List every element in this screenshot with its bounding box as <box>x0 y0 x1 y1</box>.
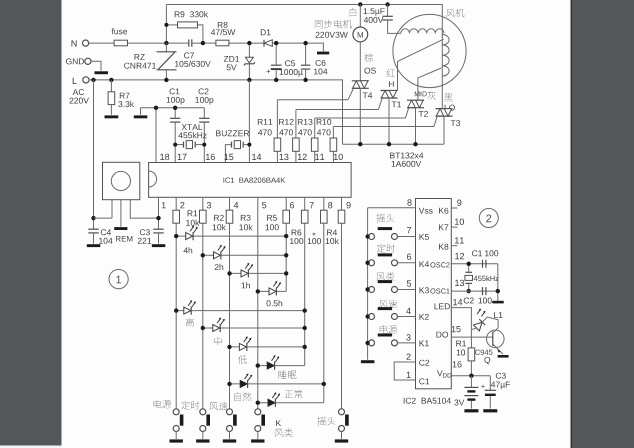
LED row 4h <box>174 226 288 254</box>
wire pin1 drop <box>158 197 160 229</box>
wire Vss pin8 <box>368 207 416 209</box>
resistor R3 <box>226 197 252 230</box>
fan tap H <box>387 39 444 90</box>
LED L1 <box>471 309 502 333</box>
node bus btn3 <box>365 287 369 291</box>
varistor RZ <box>124 43 176 80</box>
wire pin4 vertical <box>229 223 231 409</box>
fan motor circle <box>393 9 466 88</box>
resistor R8 <box>211 22 235 46</box>
LED row sleep <box>256 355 305 379</box>
node pin14 rail <box>247 78 251 82</box>
wire VDD pin16 <box>451 375 490 377</box>
node C5 bottom <box>274 78 278 82</box>
LED row 2h <box>201 245 289 270</box>
wire pin7 vertical <box>304 223 306 365</box>
capacitor C6 <box>301 43 328 80</box>
resistor R1 10 <box>456 341 474 376</box>
IR receiver box <box>103 162 159 226</box>
zener ZD1 <box>224 43 255 80</box>
terminal GND <box>66 58 101 71</box>
node C1 top <box>173 106 177 110</box>
node bus btn2 <box>365 261 369 265</box>
bus terminal bar <box>492 301 503 304</box>
motor M (synchronous) <box>315 5 376 81</box>
resistor R6 <box>290 197 308 244</box>
terminal L <box>70 77 90 104</box>
triac T2 <box>406 100 429 144</box>
resistor R1 <box>173 197 200 226</box>
capacitor C2 <box>195 88 213 162</box>
ground R7 <box>105 115 119 118</box>
button timer <box>369 244 416 266</box>
node N-C7 <box>164 41 168 45</box>
resistor R11 <box>258 100 348 163</box>
LED row 0.5h <box>256 281 287 306</box>
node R9 tap <box>164 23 168 27</box>
switch K windtype <box>251 409 293 443</box>
wire L to C4 <box>93 80 95 229</box>
marker circle 1 <box>109 270 128 289</box>
node T1 rail <box>387 142 391 146</box>
capacitor C2 100 <box>464 287 492 303</box>
capacitor C7 <box>175 39 211 67</box>
node RZ bottom <box>164 78 168 82</box>
wire pin6 vertical <box>285 223 287 291</box>
capacitor C1 <box>167 88 185 162</box>
fan aux winding <box>442 30 455 111</box>
fuse F1 <box>112 28 128 46</box>
switch power <box>154 400 184 443</box>
node buzzer pin14 <box>247 143 251 147</box>
wire pin14 vertical <box>248 80 250 163</box>
diode D1 <box>261 29 272 46</box>
node R7 top <box>109 78 113 82</box>
marker circle 2 <box>479 209 498 228</box>
emitter bar <box>498 355 509 358</box>
resistor Rx 100 <box>308 197 327 244</box>
button speed <box>369 300 416 320</box>
resistor R9 <box>166 11 208 43</box>
node pin18 <box>154 106 158 110</box>
ground key bus <box>361 360 375 363</box>
ground C3 <box>483 409 497 412</box>
resonator 455kHz <box>465 264 499 291</box>
capacitor 1.5uF <box>364 5 401 34</box>
node L drop <box>91 78 95 82</box>
wire N rail <box>89 43 324 51</box>
resistor R10 <box>317 119 434 163</box>
ground C4 <box>87 244 101 247</box>
wire LED pin14 <box>451 308 471 348</box>
battery 3V <box>454 376 478 409</box>
triac T1 <box>379 91 402 145</box>
node T4 rail <box>358 142 362 146</box>
node C6 bottom <box>303 78 307 82</box>
wire osc top <box>141 107 205 109</box>
node T2 rail <box>413 142 417 146</box>
resistor R2 <box>200 197 226 230</box>
node C6 top <box>303 41 307 45</box>
node osc bus <box>496 289 500 293</box>
ground battery <box>464 409 478 412</box>
IC2 left pin numbers <box>406 199 411 378</box>
wire pin9 vertical <box>341 223 343 409</box>
wire K6 stub <box>451 207 457 209</box>
terminal N <box>72 40 89 47</box>
switch oscillate <box>317 409 348 443</box>
ground GND terminal <box>95 71 109 74</box>
triac T3 <box>434 109 460 145</box>
capacitor C3 47uF <box>481 373 510 409</box>
wire OSC2 <box>451 263 498 265</box>
node ZD1 top <box>247 41 251 45</box>
ground osc <box>134 108 148 119</box>
wire triac common rail <box>343 143 445 145</box>
resistor R5 <box>266 197 290 230</box>
crystal XTAL 455kHz <box>175 124 207 148</box>
wire pin5 vertical <box>257 197 259 409</box>
IC1 top pin numbers <box>160 154 343 160</box>
LED row natural <box>227 373 326 401</box>
capacitor C5 <box>267 43 303 80</box>
node C5 top <box>274 41 278 45</box>
node resonator bottom <box>467 289 471 293</box>
node bus btn4 <box>365 314 369 318</box>
wire pin18 <box>155 108 157 163</box>
wire top feed <box>166 5 442 31</box>
node R9-right <box>201 41 205 45</box>
node cap 1.5uF top <box>385 2 389 6</box>
antenna bar node <box>317 52 329 55</box>
LED row 1h <box>227 263 288 288</box>
node resonator top <box>467 262 471 266</box>
wire OSC1 <box>451 290 498 292</box>
ground C3 <box>152 244 166 247</box>
IC1 bottom pin numbers <box>162 202 351 208</box>
wire K7 stub <box>451 226 457 228</box>
LED row low <box>227 336 307 363</box>
switch speed <box>209 402 236 443</box>
capacitor C3 221 <box>138 229 164 244</box>
node C4 <box>91 216 95 220</box>
LED row high <box>174 300 307 326</box>
resistor R13 <box>298 118 406 163</box>
REM stub <box>114 227 132 241</box>
resistor R7 <box>108 80 134 115</box>
fan tap MID <box>415 68 441 100</box>
LED row mid <box>201 318 307 346</box>
wire C4 row <box>94 217 113 219</box>
wire pin2 pin1 stubs <box>394 362 415 380</box>
wire pin8 vertical <box>323 223 325 403</box>
capacitor C1 100 <box>472 250 498 267</box>
button windtype <box>369 272 416 293</box>
IC1 BA8206BA4K <box>149 163 352 198</box>
LED row normal <box>256 390 324 407</box>
node bus btn1 <box>365 234 369 238</box>
node motor M top <box>358 2 362 6</box>
wire pin2 vertical <box>175 223 177 409</box>
wire DO pin15 <box>451 336 493 338</box>
button power <box>369 325 416 346</box>
transistor Q C945 <box>475 330 504 364</box>
wire pin3 vertical <box>202 223 204 409</box>
button oscillate <box>369 214 416 240</box>
buzzer BZ <box>216 130 249 162</box>
wire K8 stub <box>451 245 457 247</box>
node xtal right <box>202 143 206 147</box>
resistor R4 <box>326 197 345 244</box>
wire R9 branch vertical <box>165 5 167 44</box>
triac T4 <box>348 81 372 144</box>
node pin1 <box>156 216 160 220</box>
wire key bus <box>367 208 369 360</box>
wire osc right bus <box>497 264 499 301</box>
switch timer <box>181 401 210 443</box>
capacitor C4 <box>88 229 112 244</box>
resistor R12 <box>279 110 378 163</box>
node xtal left <box>173 143 177 147</box>
label BT132x4 <box>390 153 423 167</box>
IC2 interior labels right <box>430 208 451 378</box>
node bus btn5 <box>365 341 369 345</box>
IC2 right pin numbers <box>452 200 464 368</box>
wire L rail <box>89 80 343 144</box>
IC2 interior labels left <box>419 208 433 385</box>
fan main winding <box>401 29 444 34</box>
IC2 BA5104 <box>404 199 452 404</box>
node R1 vdd <box>469 374 473 378</box>
